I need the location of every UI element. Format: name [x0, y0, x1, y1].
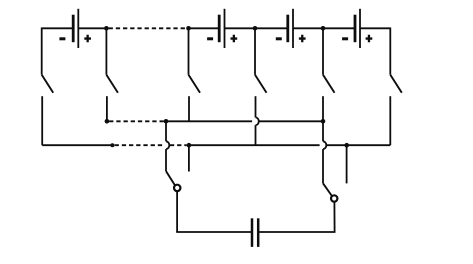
wire bus2 left vertical corner: [42, 144, 112, 146]
switch S1 blade: [42, 75, 54, 93]
wire circle K down to bottom: [176, 191, 178, 232]
battery B2: [219, 9, 224, 48]
battery B3 plus label: [299, 35, 306, 43]
node G bus1 right end: [321, 119, 326, 124]
switch S4 blade: [255, 75, 267, 93]
switch S6 top lead: [389, 28, 391, 75]
selector K blade: [166, 171, 175, 186]
battery B4: [355, 9, 360, 48]
node H bus2: [110, 143, 114, 147]
wire bus2 solid mid part: [189, 144, 320, 146]
wire B4 to top right corner: [360, 27, 390, 29]
selector K contact stub from bus2: [188, 145, 190, 171]
switch S4 bottom contact upper: [255, 96, 257, 117]
switch S6 bottom contact: [389, 96, 391, 145]
battery B2 minus label: [207, 37, 213, 40]
battery B1 plus label: [84, 35, 91, 43]
switch S3 blade: [189, 75, 201, 93]
wire bus2 solid right part: [326, 144, 390, 146]
selector L pole circle: [331, 195, 337, 201]
wire circle L down to bottom: [333, 202, 335, 232]
selector K feed lower: [165, 149, 167, 171]
wire bus1 solid right part: [259, 120, 323, 122]
selector L blade: [323, 183, 332, 196]
switch S3 top lead: [188, 28, 190, 74]
node I bus2: [187, 143, 192, 148]
selector L feed lower: [322, 149, 324, 183]
battery B3: [288, 9, 293, 48]
wire dashed rail segment A-B: [109, 27, 187, 29]
battery B1 minus label: [59, 37, 65, 40]
switch S1 top lead: [41, 28, 43, 75]
wire node D to B4: [323, 27, 355, 29]
switch S6 blade: [390, 75, 402, 93]
switch S5 blade: [323, 75, 335, 93]
battery B1: [73, 9, 78, 48]
selector K feed upper: [165, 121, 167, 141]
node B: [186, 26, 191, 31]
wire dashed bus1 segment: [109, 120, 164, 122]
switch S5 top lead: [322, 28, 324, 74]
wire hop K over bus2: [166, 141, 169, 149]
switch S4 top lead: [254, 28, 256, 74]
node E bus1 left: [105, 119, 110, 124]
battery B3 minus label: [276, 37, 282, 40]
switch S5 bottom contact: [322, 96, 324, 121]
node A: [104, 26, 109, 31]
switch S2 blade: [106, 75, 118, 93]
battery B4 plus label: [366, 35, 373, 43]
battery B2 plus label: [231, 35, 238, 43]
switch S2 top lead: [105, 28, 107, 74]
wire dashed bus2 segment left: [115, 144, 163, 146]
switch S4 bottom contact lower: [255, 125, 257, 145]
battery B4 minus label: [342, 37, 348, 40]
wire bottom to capacitor left: [176, 231, 252, 233]
capacitor C1: [252, 218, 258, 247]
wire capacitor right to bottom corner: [258, 231, 335, 233]
wire node C to B3: [255, 27, 288, 29]
wire hop L over bus2: [323, 141, 326, 149]
node C: [253, 26, 258, 31]
wire B3 to node D: [293, 27, 323, 29]
switch S1 bottom contact: [41, 96, 43, 145]
wire bus1 solid left part: [166, 120, 252, 122]
selector L feed upper: [322, 121, 324, 141]
selector L contact stub from bus2: [346, 145, 348, 183]
wire top rail left segment: [42, 27, 73, 29]
wire node B to B2: [189, 27, 220, 29]
wire B2 to node C: [225, 27, 256, 29]
node D: [321, 26, 326, 31]
wire B1 to node A: [78, 27, 106, 29]
switch S2 bottom contact: [106, 96, 108, 121]
selector K pole circle: [174, 185, 180, 191]
switch S3 bottom contact: [188, 96, 190, 121]
node J bus2: [344, 143, 349, 148]
node F bus1: [164, 119, 169, 124]
wire hop S4 over bus1: [256, 117, 259, 125]
wire dashed bus2 segment right: [170, 144, 187, 146]
